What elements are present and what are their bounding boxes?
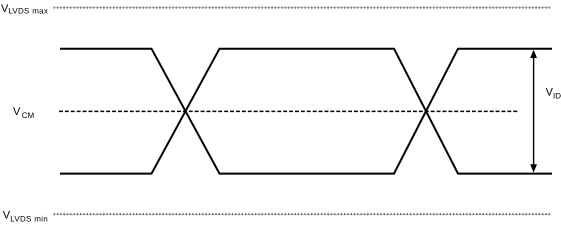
wire LVDS positive signal trace bbox=[60, 49, 552, 174]
node VLVDSmin dotted level line bbox=[54, 213, 551, 215]
label VID bbox=[546, 87, 561, 101]
label VLVDS min bbox=[3, 210, 48, 224]
svg-text:LVDS max: LVDS max bbox=[8, 7, 48, 16]
label VCM bbox=[13, 106, 34, 120]
wire LVDS negative signal trace bbox=[60, 49, 552, 174]
label VLVDS max bbox=[1, 3, 48, 16]
VID measurement arrow bbox=[530, 50, 537, 173]
node VCM dashed level line bbox=[59, 110, 519, 112]
svg-text:ID: ID bbox=[553, 92, 561, 101]
svg-text:V: V bbox=[13, 106, 21, 118]
svg-text:LVDS min: LVDS min bbox=[10, 215, 48, 224]
node VLVDSmax dotted level line bbox=[54, 7, 551, 9]
svg-text:CM: CM bbox=[22, 111, 35, 120]
